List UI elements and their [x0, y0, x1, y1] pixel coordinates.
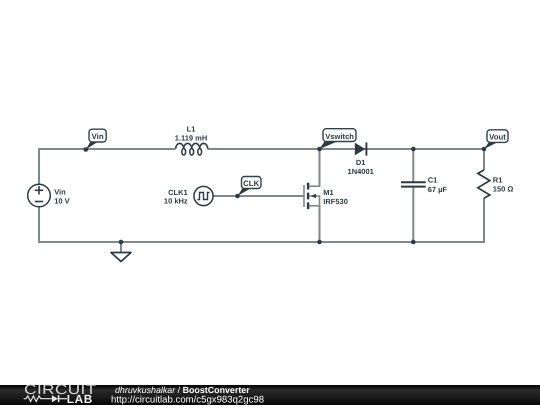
node dot C1 top	[411, 147, 416, 152]
svg-text:67 µF: 67 µF	[428, 185, 448, 194]
ground	[111, 253, 131, 262]
svg-text:C1: C1	[428, 176, 438, 185]
svg-text:1N4001: 1N4001	[348, 167, 374, 176]
svg-text:10 kHz: 10 kHz	[164, 196, 188, 205]
svg-text:Vin: Vin	[92, 132, 104, 141]
wire resistor R1 upper	[483, 148, 485, 170]
node label Vswitch	[320, 129, 357, 149]
MOSFET M1	[304, 183, 320, 210]
node dot C1 bottom	[411, 240, 416, 245]
wire left vertical lower	[38, 207, 40, 243]
label C1 67 uF	[428, 176, 448, 194]
voltage source V1 Vin	[28, 184, 51, 207]
wire left vertical upper	[38, 148, 40, 184]
inductor L1	[176, 143, 208, 155]
footer bar	[0, 385, 540, 405]
wire capacitor C1 lower	[412, 187, 414, 243]
svg-text:M1: M1	[323, 188, 333, 197]
resistor R1	[478, 170, 490, 198]
wire ground stem	[120, 242, 122, 253]
wire top rail left segment	[39, 148, 176, 150]
wire top rail right segment	[208, 148, 485, 150]
wire MOSFET drain vertical	[319, 148, 321, 186]
svg-text:D1: D1	[356, 158, 366, 167]
node dot ground	[119, 240, 124, 245]
svg-text:Vout: Vout	[489, 133, 506, 142]
svg-text:Vswitch: Vswitch	[325, 132, 354, 141]
svg-text:Vin: Vin	[54, 188, 66, 197]
wire resistor R1 lower	[483, 198, 485, 243]
clock source CLK1	[194, 186, 213, 205]
node dot Vin	[84, 147, 89, 152]
svg-text:LAB: LAB	[67, 392, 93, 405]
svg-text:10 V: 10 V	[54, 197, 69, 206]
label R1 150 Ohm	[493, 175, 514, 193]
svg-text:dhruvkushalkar / BoostConverte: dhruvkushalkar / BoostConverter	[115, 385, 250, 395]
node label Vout	[484, 130, 508, 149]
label M1 IRF530	[323, 188, 348, 206]
svg-text:http://circuitlab.com/c5gx983q: http://circuitlab.com/c5gx983q2gc98	[111, 395, 264, 405]
svg-text:1.119 mH: 1.119 mH	[175, 133, 208, 142]
label Vin 10 V	[54, 188, 69, 206]
wire bottom rail	[39, 241, 484, 243]
wire CLK1 to gate	[213, 195, 304, 197]
svg-text:CLK: CLK	[243, 179, 259, 188]
CircuitLab logo resistor-diode line and LAB	[24, 392, 93, 405]
capacitor C1	[401, 182, 426, 186]
svg-text:150 Ω: 150 Ω	[493, 185, 514, 194]
node label Vin	[86, 129, 106, 149]
svg-text:IRF530: IRF530	[323, 197, 348, 206]
wire capacitor C1 upper	[412, 148, 414, 182]
node dot CLK	[235, 194, 240, 199]
label CLK1 10 kHz	[164, 188, 188, 205]
svg-text:R1: R1	[493, 175, 503, 184]
label L1 1.119 mH	[175, 124, 208, 142]
diode D1	[355, 142, 367, 155]
node dot Vswitch	[317, 147, 322, 152]
node dot Vout	[482, 147, 487, 152]
node label CLK	[238, 177, 261, 196]
node dot source bottom	[317, 240, 322, 245]
label D1 1N4001	[348, 158, 374, 176]
wire MOSFET source vertical	[319, 205, 321, 243]
svg-text:L1: L1	[187, 124, 196, 133]
